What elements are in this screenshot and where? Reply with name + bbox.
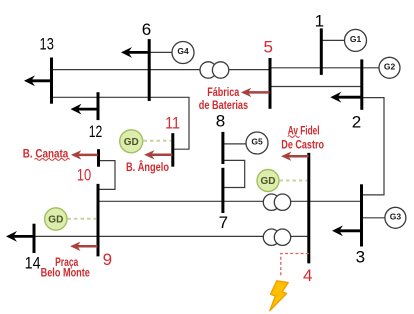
bus 13 bbox=[50, 58, 53, 104]
svg-text:13: 13 bbox=[40, 35, 54, 54]
wire bus10 to bus9 loop bbox=[98, 161, 115, 190]
wire bus8 to G5 bbox=[223, 143, 247, 145]
svg-text:11: 11 bbox=[165, 114, 180, 133]
bus 7 bbox=[221, 168, 224, 213]
wire bus6 to G4 bbox=[149, 51, 172, 53]
bus 12 bbox=[97, 92, 100, 120]
svg-text:G4: G4 bbox=[177, 46, 189, 56]
svg-text:G3: G3 bbox=[390, 211, 402, 221]
wire bus9 to bus7 to bus4 to bus3 (via transformer) bbox=[98, 200, 362, 202]
wire bus13 to bus6 to bus11 bbox=[52, 97, 190, 149]
bus 6 bbox=[148, 39, 151, 101]
svg-text:GD: GD bbox=[261, 176, 276, 187]
svg-text:Av Fidel: Av Fidel bbox=[288, 124, 320, 138]
svg-text:De Castro: De Castro bbox=[281, 138, 324, 152]
bus 5 bbox=[269, 58, 272, 109]
svg-text:5: 5 bbox=[263, 37, 272, 56]
wire bus13 to bus5 (via transformer) bbox=[52, 69, 271, 71]
bus 10 bbox=[97, 149, 100, 167]
generator G3 bbox=[385, 207, 406, 228]
bus 1 bbox=[320, 28, 323, 75]
transformer T1 (13-5) bbox=[200, 62, 229, 78]
generator G4 bbox=[172, 42, 194, 64]
svg-text:G5: G5 bbox=[251, 137, 263, 147]
red arrow Fabrica de Baterias (bus 5) bbox=[241, 88, 270, 97]
svg-text:9: 9 bbox=[103, 250, 112, 269]
svg-text:10: 10 bbox=[77, 165, 92, 184]
svg-text:7: 7 bbox=[219, 213, 228, 232]
load arrow bus 2 bbox=[330, 92, 362, 103]
svg-text:4: 4 bbox=[303, 266, 312, 285]
transformer T2 (7-4) bbox=[263, 194, 290, 210]
bus 11 bbox=[171, 133, 174, 167]
red arrow B. Canata (bus 10) bbox=[71, 150, 98, 159]
svg-text:de Baterias: de Baterias bbox=[199, 98, 249, 112]
wire bus1 to G1 bbox=[321, 39, 345, 41]
svg-text:12: 12 bbox=[89, 122, 103, 141]
red arrow Av Fidel De Castro (bus 4) bbox=[281, 152, 309, 161]
wire bus3 to G3 bbox=[362, 217, 386, 219]
GD dashed tie to bus 9 bbox=[68, 218, 97, 220]
svg-text:G2: G2 bbox=[384, 61, 396, 71]
svg-text:3: 3 bbox=[356, 247, 365, 266]
GD dashed tie to bus 4 bbox=[280, 180, 308, 182]
generator G2 bbox=[379, 57, 400, 78]
load arrow bus 12 bbox=[71, 104, 99, 115]
lightning fault symbol bbox=[270, 281, 288, 311]
svg-text:GD: GD bbox=[124, 137, 139, 148]
bus 2 bbox=[360, 59, 363, 109]
svg-text:14: 14 bbox=[25, 253, 41, 272]
svg-text:G1: G1 bbox=[350, 34, 362, 44]
svg-text:8: 8 bbox=[216, 112, 225, 131]
wire bus14 to bus9 to bus4 (via transformer) bbox=[34, 235, 309, 237]
load arrow bus 3 bbox=[332, 225, 362, 236]
squiggle under Canata bbox=[35, 158, 70, 160]
red arrow B. Angelo (bus 11) bbox=[144, 150, 172, 159]
svg-text:B. Ângelo: B. Ângelo bbox=[126, 159, 169, 174]
svg-text:2: 2 bbox=[352, 113, 361, 132]
bus 8 bbox=[221, 132, 224, 164]
red arrow Praca Belo Monte (bus 9) bbox=[70, 242, 97, 251]
wire bus5 to bus2 to G2 bbox=[270, 67, 380, 69]
generator G1 bbox=[345, 29, 367, 51]
squiggle under Av bbox=[288, 136, 300, 138]
GD unit at bus 11 bbox=[120, 130, 143, 153]
red dashed fault tie from bus 4 bbox=[281, 254, 309, 278]
bus 3 bbox=[360, 184, 363, 246]
transformer T3 (9-4) bbox=[263, 229, 290, 245]
bus 14 bbox=[33, 224, 36, 253]
bus 4 bbox=[307, 153, 310, 264]
GD dashed tie to bus 11 bbox=[144, 140, 172, 142]
svg-text:Belo Monte: Belo Monte bbox=[41, 266, 91, 280]
wire bus8 to bus7 loop bbox=[223, 160, 245, 187]
wire bus2 to bus3 right side bbox=[362, 98, 385, 195]
GD unit at bus 4 bbox=[257, 170, 279, 192]
bus 9 bbox=[97, 184, 100, 257]
load arrow bus 6 bbox=[121, 47, 149, 58]
svg-text:6: 6 bbox=[142, 20, 151, 39]
load arrow bus 13 bbox=[24, 75, 52, 86]
wire bus5 to bus2 lower bbox=[270, 86, 362, 88]
svg-text:GD: GD bbox=[48, 215, 63, 226]
load arrow bus 14 bbox=[6, 231, 34, 242]
GD unit at bus 9 bbox=[45, 208, 67, 230]
svg-text:1: 1 bbox=[315, 11, 324, 30]
generator G5 bbox=[246, 132, 268, 154]
